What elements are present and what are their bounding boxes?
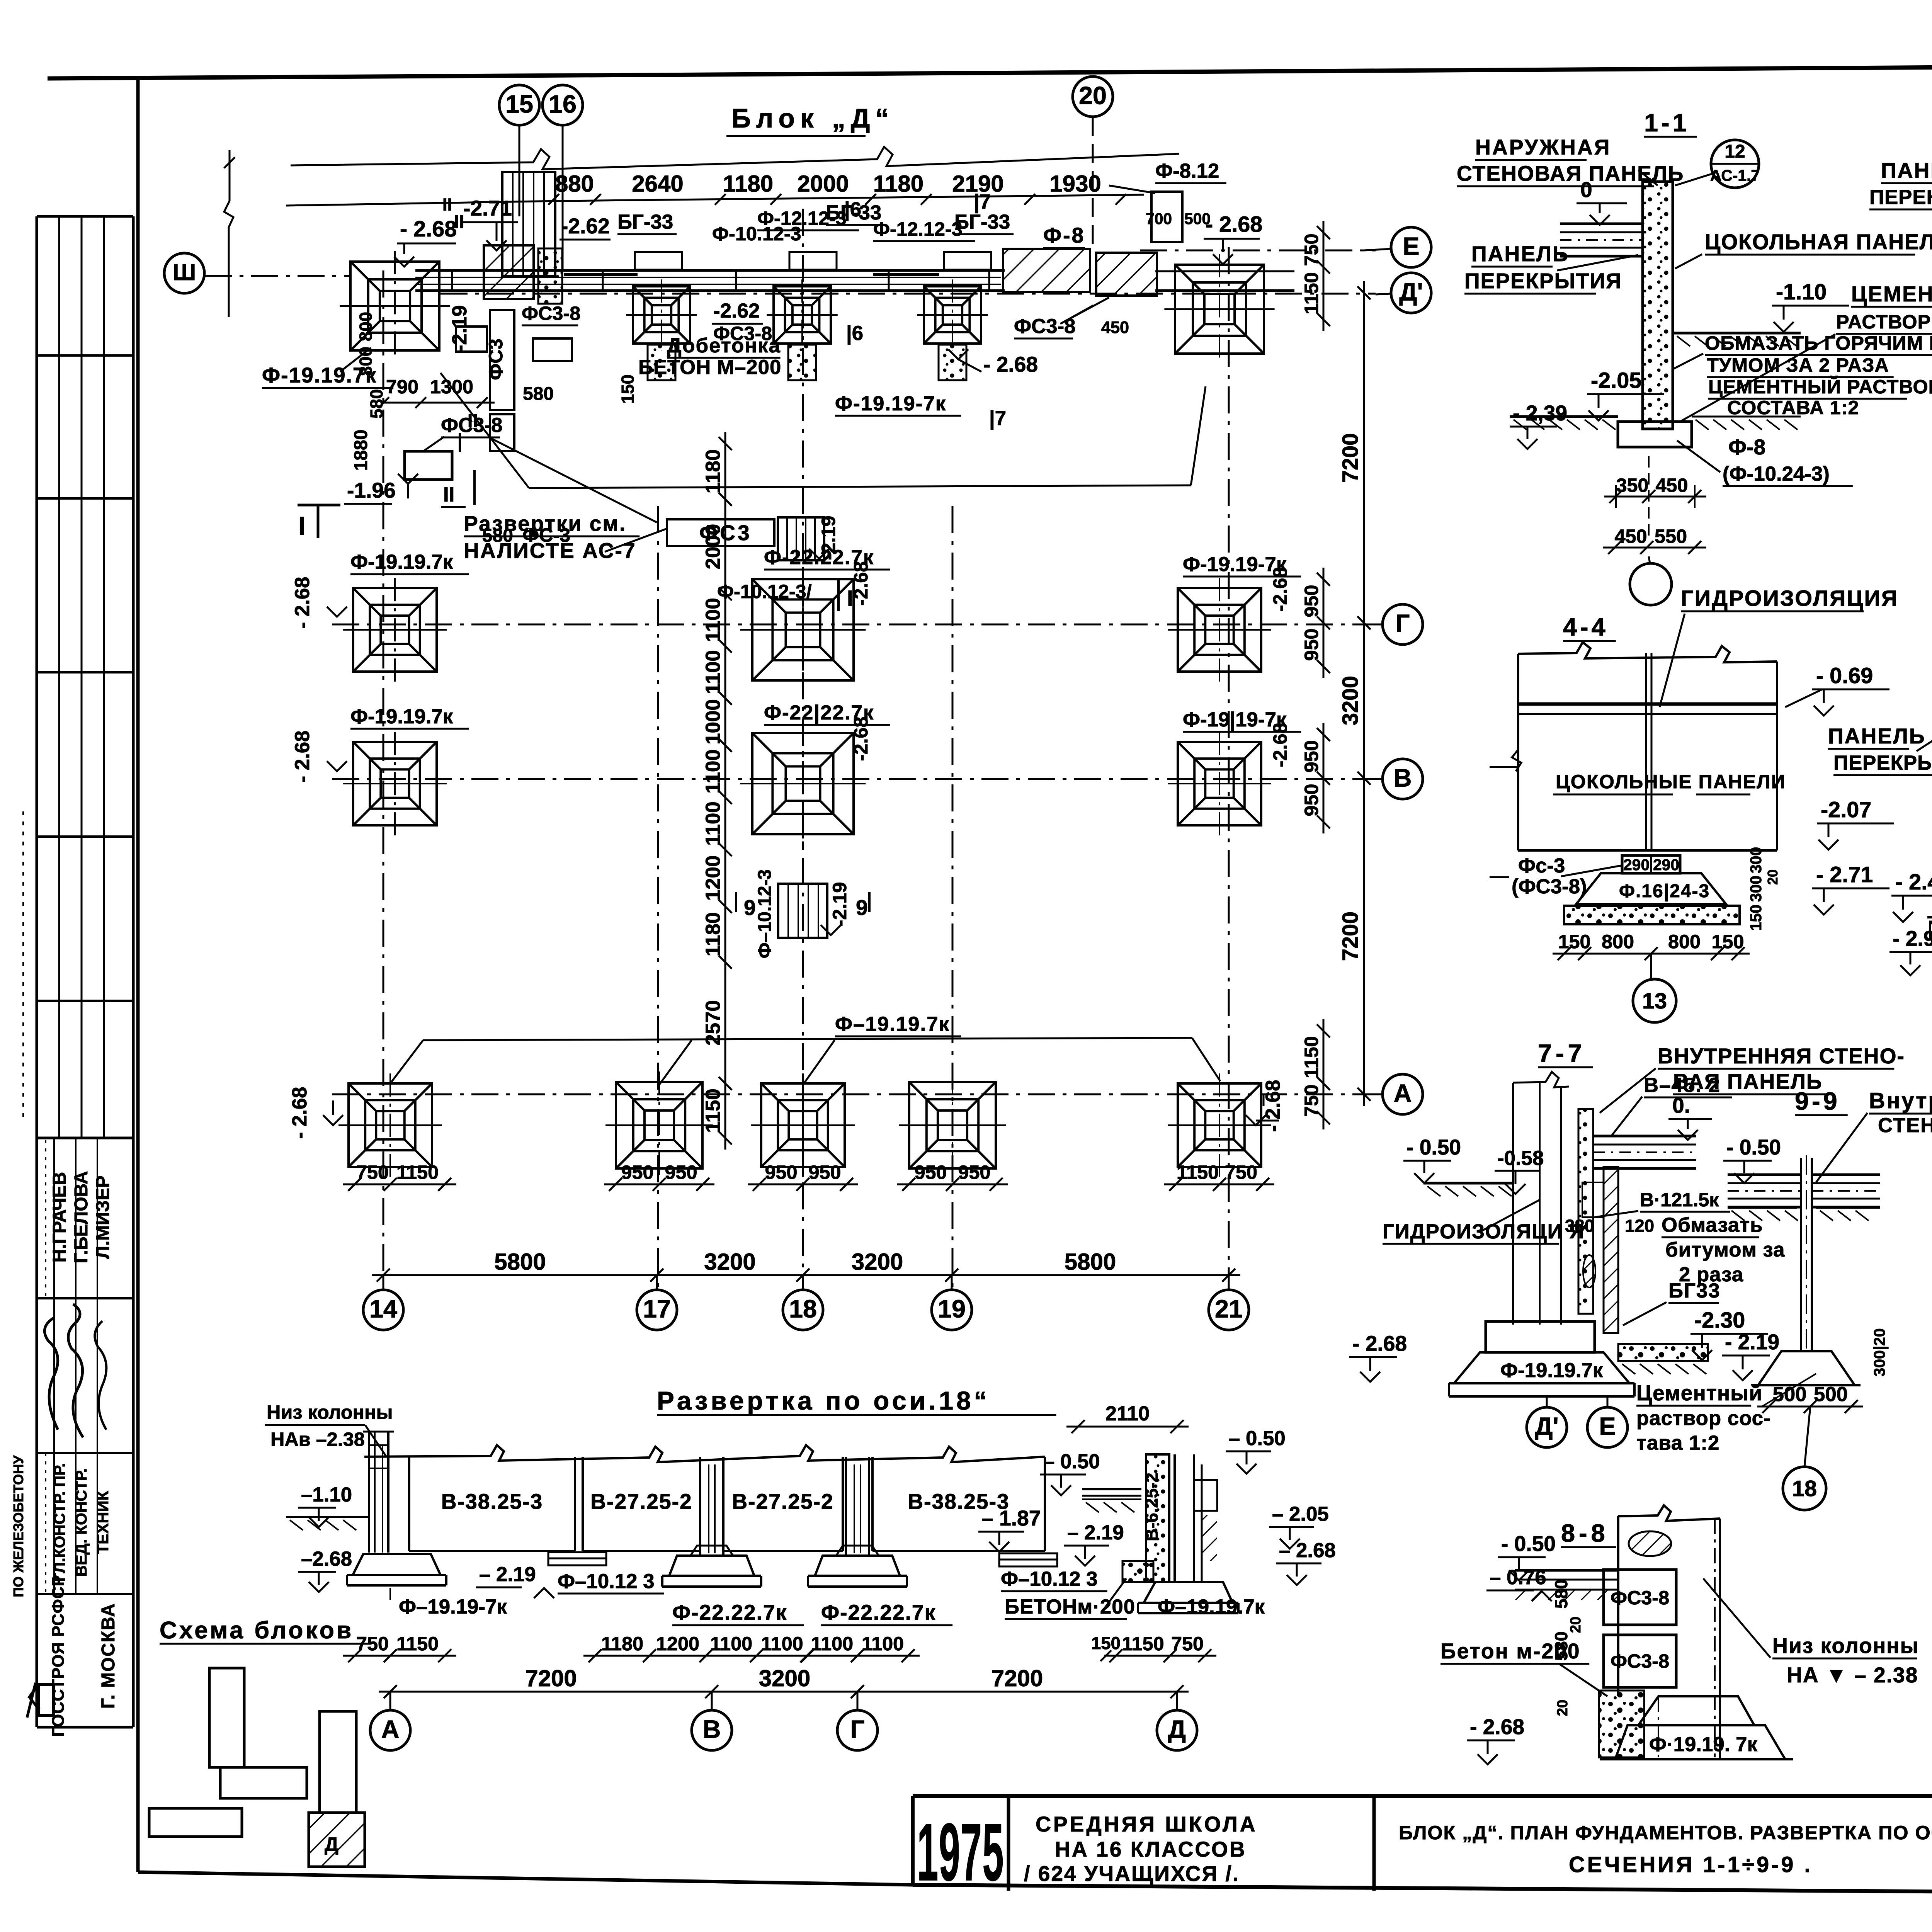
- svg-text:В-27.25-2: В-27.25-2: [732, 1490, 833, 1514]
- svg-text:0: 0: [1580, 178, 1592, 202]
- svg-text:– 0.50: – 0.50: [1043, 1450, 1100, 1473]
- svg-text:Ф-12.12-3: Ф-12.12-3: [873, 218, 963, 240]
- svg-text:Фс-3: Фс-3: [1518, 854, 1565, 877]
- svg-text:В-6.25-2: В-6.25-2: [1142, 1473, 1162, 1541]
- svg-text:1880: 1880: [351, 430, 371, 471]
- svg-text:Обмазать: Обмазать: [1662, 1214, 1763, 1236]
- svg-text:СТЕНОВАЯ ПАНЕЛЬ: СТЕНОВАЯ ПАНЕЛЬ: [1878, 1114, 1932, 1137]
- svg-text:5800: 5800: [1065, 1249, 1116, 1275]
- svg-text:150: 150: [1558, 930, 1590, 952]
- svg-text:СОСТАВА 1:2: СОСТАВА 1:2: [1727, 396, 1859, 418]
- svg-text:– 2.68: – 2.68: [1279, 1539, 1336, 1562]
- svg-text:2000: 2000: [797, 171, 849, 197]
- svg-text:5800: 5800: [494, 1249, 546, 1275]
- svg-text:Ф-8: Ф-8: [1043, 223, 1085, 247]
- svg-text:550: 550: [1655, 525, 1687, 547]
- svg-text:ТУМОМ ЗА 2 РАЗА: ТУМОМ ЗА 2 РАЗА: [1707, 354, 1889, 376]
- svg-text:ЦЕМЕНТНЫЙ РАСТВОР: ЦЕМЕНТНЫЙ РАСТВОР: [1708, 376, 1932, 398]
- svg-text:Низ колонны: Низ колонны: [1772, 1634, 1919, 1658]
- svg-text:350: 350: [1616, 474, 1648, 496]
- svg-text:1180: 1180: [702, 449, 724, 494]
- svg-text:НА 16 КЛАССОВ: НА 16 КЛАССОВ: [1055, 1837, 1247, 1861]
- svg-text:- 2.68: - 2.68: [288, 1087, 311, 1139]
- svg-text:ФС3-8: ФС3-8: [1611, 1650, 1669, 1672]
- svg-text:750: 750: [1171, 1633, 1204, 1655]
- svg-text:Г: Г: [850, 1715, 865, 1743]
- svg-text:ЦОКОЛЬНЫЕ ПАНЕЛИ: ЦОКОЛЬНЫЕ ПАНЕЛИ: [1556, 770, 1786, 793]
- svg-text:- 2.19: - 2.19: [1725, 1330, 1779, 1354]
- svg-text:НАв –2.38: НАв –2.38: [270, 1428, 365, 1450]
- svg-text:880: 880: [555, 171, 594, 197]
- svg-text:20: 20: [1567, 1617, 1584, 1633]
- svg-text:ФС3-8: ФС3-8: [522, 302, 580, 324]
- svg-text:13: 13: [1642, 989, 1667, 1014]
- svg-text:II: II: [442, 195, 452, 214]
- svg-text:4-4: 4-4: [1563, 613, 1609, 641]
- svg-text:В–45. 2: В–45. 2: [1644, 1074, 1721, 1097]
- svg-text:ВНУТРЕННЯЯ СТЕНО-: ВНУТРЕННЯЯ СТЕНО-: [1658, 1044, 1905, 1068]
- svg-text:- 2.68: - 2.68: [983, 352, 1038, 376]
- svg-text:– 2.19: – 2.19: [479, 1563, 536, 1586]
- svg-text:1100: 1100: [702, 801, 724, 846]
- svg-text:1100: 1100: [710, 1633, 752, 1655]
- svg-text:19: 19: [938, 1294, 966, 1323]
- svg-text:2640: 2640: [632, 171, 683, 197]
- svg-text:950: 950: [765, 1161, 797, 1183]
- svg-text:раствор сос-: раствор сос-: [1636, 1407, 1771, 1430]
- svg-text:- 2.95: - 2.95: [1893, 927, 1932, 951]
- svg-text:950: 950: [665, 1161, 697, 1183]
- svg-text:ПАНЕЛЬ: ПАНЕЛЬ: [1828, 724, 1926, 748]
- svg-text:150: 150: [1747, 905, 1765, 931]
- svg-text:1180: 1180: [601, 1633, 643, 1655]
- svg-text:7-7: 7-7: [1538, 1039, 1586, 1067]
- svg-text:Ф-22.22.7к: Ф-22.22.7к: [672, 1600, 787, 1624]
- svg-text:Схема блоков: Схема блоков: [160, 1617, 354, 1644]
- svg-text:- 0.50: - 0.50: [1406, 1135, 1461, 1159]
- svg-text:17: 17: [643, 1294, 671, 1323]
- svg-text:2110: 2110: [1105, 1402, 1150, 1425]
- svg-text:120: 120: [1625, 1216, 1654, 1236]
- svg-text:– 0.76: – 0.76: [1490, 1566, 1546, 1589]
- svg-text:450: 450: [1614, 525, 1647, 547]
- svg-text:800: 800: [356, 347, 376, 376]
- svg-text:1000: 1000: [702, 699, 724, 744]
- svg-text:450: 450: [1655, 474, 1688, 496]
- svg-text:– 2.05: – 2.05: [1272, 1503, 1329, 1526]
- svg-text:-1.96: -1.96: [347, 478, 396, 502]
- svg-text:1300: 1300: [430, 376, 473, 398]
- svg-text:580: 580: [1551, 1631, 1571, 1661]
- svg-text:Ф–19.19.7к: Ф–19.19.7к: [835, 1013, 950, 1036]
- svg-text:- 2.68: - 2.68: [400, 217, 457, 241]
- svg-text:800: 800: [1602, 930, 1634, 952]
- svg-text:- 2.68: - 2.68: [1206, 212, 1262, 237]
- svg-text:Ф-19.19-7к: Ф-19.19-7к: [835, 392, 946, 415]
- svg-text:Внутренняя: Внутренняя: [1869, 1088, 1932, 1113]
- svg-text:(Ф-10.24-3): (Ф-10.24-3): [1723, 463, 1830, 485]
- svg-text:АС-1.7: АС-1.7: [1710, 167, 1760, 184]
- svg-text:-2.68: -2.68: [1269, 567, 1291, 612]
- svg-text:1150: 1150: [1300, 272, 1322, 314]
- svg-text:НАРУЖНАЯ: НАРУЖНАЯ: [1475, 135, 1611, 159]
- svg-text:-2.07: -2.07: [1821, 798, 1871, 822]
- svg-text:/ 624 УЧАЩИХСЯ /.: / 624 УЧАЩИХСЯ /.: [1024, 1862, 1240, 1886]
- svg-text:ПЕРЕКРЫТИЯ: ПЕРЕКРЫТИЯ: [1833, 752, 1932, 774]
- svg-text:950: 950: [914, 1161, 947, 1183]
- svg-text:15: 15: [505, 90, 533, 118]
- svg-text:3200: 3200: [852, 1249, 903, 1275]
- svg-text:950: 950: [1300, 740, 1322, 772]
- svg-text:450: 450: [1101, 318, 1129, 337]
- svg-text:790: 790: [386, 376, 418, 398]
- svg-text:Низ колонны: Низ колонны: [267, 1401, 393, 1423]
- svg-text:|7: |7: [974, 190, 991, 214]
- svg-text:Блок „Д“: Блок „Д“: [731, 103, 894, 133]
- svg-text:ФС3-8: ФС3-8: [1611, 1587, 1669, 1609]
- svg-text:Ф-19.19.7к: Ф-19.19.7к: [1500, 1359, 1603, 1382]
- svg-text:ФС3-8: ФС3-8: [1014, 315, 1076, 338]
- svg-text:2570: 2570: [702, 1000, 724, 1045]
- svg-text:7200: 7200: [1338, 912, 1363, 961]
- svg-text:500: 500: [1814, 1383, 1848, 1406]
- svg-text:–2.68: –2.68: [301, 1548, 352, 1570]
- svg-text:14: 14: [369, 1294, 397, 1323]
- svg-text:1150: 1150: [396, 1633, 439, 1655]
- svg-text:- 2.71: - 2.71: [1816, 862, 1873, 887]
- svg-text:1150: 1150: [1122, 1633, 1164, 1655]
- svg-text:950: 950: [1300, 628, 1322, 661]
- svg-text:|6: |6: [846, 322, 863, 345]
- svg-text:-2.19: -2.19: [448, 305, 471, 352]
- svg-text:580: 580: [367, 389, 386, 418]
- svg-text:ГИДРОИЗОЛЯЦИ Я: ГИДРОИЗОЛЯЦИ Я: [1383, 1220, 1585, 1243]
- svg-text:– 2.19: – 2.19: [1067, 1521, 1124, 1544]
- svg-text:БГ33: БГ33: [1668, 1279, 1721, 1302]
- svg-text:- 2.68: - 2.68: [291, 730, 314, 782]
- svg-text:РАСТВОР СОСТАВА 1:2: РАСТВОР СОСТАВА 1:2: [1836, 311, 1932, 333]
- svg-text:1180: 1180: [723, 171, 773, 197]
- svg-text:ГИДРОИЗОЛЯЦИЯ: ГИДРОИЗОЛЯЦИЯ: [1681, 586, 1898, 611]
- svg-text:800: 800: [356, 312, 376, 341]
- svg-text:16: 16: [549, 90, 577, 118]
- svg-text:Г.БЕЛОВА: Г.БЕЛОВА: [71, 1171, 92, 1263]
- svg-text:950: 950: [958, 1161, 990, 1183]
- svg-text:I: I: [298, 512, 306, 541]
- svg-text:Е: Е: [1599, 1412, 1616, 1440]
- svg-text:Г. МОСКВА: Г. МОСКВА: [98, 1603, 119, 1709]
- svg-text:750: 750: [356, 1161, 389, 1183]
- svg-text:II: II: [443, 483, 454, 506]
- svg-text:Д: Д: [1168, 1715, 1186, 1743]
- svg-text:ГЛ.КОНСТР. ПР.: ГЛ.КОНСТР. ПР.: [51, 1463, 68, 1582]
- svg-text:- 0.69: - 0.69: [1816, 663, 1873, 688]
- svg-text:750: 750: [1300, 1084, 1322, 1117]
- svg-text:ТЕХНИК: ТЕХНИК: [94, 1491, 112, 1554]
- svg-text:Д': Д': [1399, 277, 1423, 306]
- svg-text:Развертка по оси.18“: Развертка по оси.18“: [657, 1386, 990, 1415]
- svg-text:1930: 1930: [1049, 171, 1101, 197]
- svg-text:|6: |6: [844, 198, 861, 221]
- svg-text:-2.71: -2.71: [463, 196, 512, 220]
- svg-text:150: 150: [618, 374, 638, 404]
- svg-text:Ф·19.19. 7к: Ф·19.19. 7к: [1649, 1733, 1757, 1756]
- svg-text:1150: 1150: [396, 1161, 439, 1183]
- svg-text:2000: 2000: [702, 524, 724, 569]
- svg-text:БГ-33: БГ-33: [617, 211, 673, 233]
- svg-text:1100: 1100: [862, 1633, 904, 1655]
- svg-text:380: 380: [1565, 1216, 1594, 1236]
- svg-text:750: 750: [1300, 233, 1322, 266]
- svg-text:битумом за: битумом за: [1665, 1238, 1785, 1261]
- svg-text:- 2,39: - 2,39: [1513, 401, 1567, 425]
- svg-text:1100: 1100: [761, 1633, 803, 1655]
- svg-text:1180: 1180: [873, 171, 923, 197]
- svg-text:18: 18: [789, 1294, 817, 1323]
- svg-text:ЦОКОЛЬНАЯ ПАНЕЛЬ: ЦОКОЛЬНАЯ ПАНЕЛЬ: [1705, 230, 1932, 254]
- svg-text:Ш: Ш: [173, 259, 196, 285]
- svg-text:В-38.25-3: В-38.25-3: [441, 1490, 543, 1514]
- svg-text:300: 300: [1747, 876, 1765, 902]
- svg-text:Ф-19.19.7к: Ф-19.19.7к: [350, 551, 453, 573]
- svg-text:ОБМАЗАТЬ ГОРЯЧИМ БИ-: ОБМАЗАТЬ ГОРЯЧИМ БИ-: [1705, 332, 1932, 354]
- svg-text:-2.19: -2.19: [828, 882, 850, 927]
- svg-text:Д': Д': [1535, 1412, 1559, 1440]
- svg-text:- 0.50: - 0.50: [1726, 1135, 1781, 1159]
- svg-text:Н.ГРАЧЕВ: Н.ГРАЧЕВ: [49, 1172, 70, 1262]
- svg-text:3200: 3200: [704, 1249, 755, 1275]
- svg-text:950: 950: [808, 1161, 841, 1183]
- svg-text:1100: 1100: [702, 650, 724, 694]
- svg-text:8-8: 8-8: [1561, 1519, 1609, 1547]
- svg-text:- 2.68: - 2.68: [1262, 1080, 1284, 1132]
- svg-text:В-27.25-2: В-27.25-2: [590, 1490, 692, 1514]
- svg-text:БГ-33: БГ-33: [954, 211, 1010, 233]
- svg-text:150: 150: [1711, 930, 1744, 952]
- svg-text:290: 290: [1653, 856, 1679, 874]
- svg-text:ВЕД. КОНСТР.: ВЕД. КОНСТР.: [72, 1468, 90, 1577]
- svg-text:Ф–10.12 3: Ф–10.12 3: [558, 1570, 655, 1593]
- svg-text:1100: 1100: [811, 1633, 853, 1655]
- svg-text:9: 9: [744, 896, 756, 920]
- svg-text:В·121.5к: В·121.5к: [1640, 1189, 1719, 1211]
- svg-text:ПАНЕЛЬ: ПАНЕЛЬ: [1881, 158, 1932, 182]
- svg-text:Ф.16|24-3: Ф.16|24-3: [1619, 881, 1710, 901]
- svg-text:1975: 1975: [917, 1806, 1004, 1898]
- svg-text:А: А: [1394, 1079, 1412, 1107]
- svg-text:ПЕРЕКРЫТИЯ: ПЕРЕКРЫТИЯ: [1464, 269, 1622, 293]
- svg-text:ПО ЖЕЛЕЗОБЕТОНУ: ПО ЖЕЛЕЗОБЕТОНУ: [10, 1455, 26, 1597]
- svg-text:1150: 1150: [1177, 1161, 1219, 1183]
- svg-text:Д: Д: [325, 1833, 338, 1855]
- svg-text:300|20: 300|20: [1871, 1328, 1888, 1377]
- svg-text:- 0.50: - 0.50: [1501, 1532, 1556, 1556]
- svg-text:- 2.68: - 2.68: [291, 577, 314, 629]
- svg-text:-2.68: -2.68: [850, 717, 872, 761]
- svg-text:Е: Е: [1403, 232, 1419, 260]
- svg-text:Г: Г: [1396, 609, 1410, 637]
- svg-text:- 2.40: - 2.40: [1895, 870, 1932, 895]
- svg-text:7200: 7200: [525, 1665, 577, 1691]
- svg-text:Ф–19.19-7к: Ф–19.19-7к: [399, 1595, 507, 1618]
- svg-text:20: 20: [1554, 1700, 1571, 1716]
- svg-text:580: 580: [523, 384, 554, 404]
- svg-text:1200: 1200: [702, 855, 724, 901]
- svg-text:ПАНЕЛЬ: ПАНЕЛЬ: [1471, 242, 1569, 266]
- svg-text:-0.58: -0.58: [1497, 1147, 1544, 1170]
- svg-text:1200: 1200: [656, 1633, 699, 1655]
- svg-text:Ф–10.12-3: Ф–10.12-3: [755, 869, 775, 958]
- svg-text:СЕЧЕНИЯ 1-1÷9-9 .: СЕЧЕНИЯ 1-1÷9-9 .: [1569, 1852, 1813, 1877]
- svg-text:1100: 1100: [702, 598, 724, 642]
- svg-text:– 0.50: – 0.50: [1229, 1427, 1286, 1450]
- svg-text:1-1: 1-1: [1644, 109, 1690, 137]
- svg-text:950: 950: [621, 1161, 653, 1183]
- svg-text:Ф-8: Ф-8: [1728, 435, 1765, 459]
- svg-text:1180: 1180: [702, 912, 724, 957]
- svg-text:950: 950: [1300, 784, 1322, 816]
- svg-text:Добетонка: Добетонка: [667, 334, 781, 357]
- svg-text:БЕТОНм·200: БЕТОНм·200: [1005, 1595, 1135, 1618]
- svg-text:950: 950: [1300, 585, 1322, 617]
- svg-text:Ф–19.19.7к: Ф–19.19.7к: [1158, 1595, 1265, 1618]
- svg-text:7200: 7200: [992, 1665, 1043, 1691]
- svg-text:БЕТОН М–200: БЕТОН М–200: [638, 356, 781, 379]
- svg-text:9-9: 9-9: [1795, 1087, 1840, 1115]
- svg-text:-2.68: -2.68: [850, 561, 872, 606]
- svg-text:Л.МИЗЕР: Л.МИЗЕР: [93, 1175, 113, 1259]
- svg-text:300: 300: [1747, 847, 1765, 873]
- svg-text:150: 150: [1091, 1633, 1121, 1653]
- svg-text:-2.68: -2.68: [1269, 723, 1291, 767]
- svg-text:|7: |7: [989, 407, 1006, 430]
- svg-text:800: 800: [1668, 930, 1701, 952]
- svg-text:-1.10: -1.10: [1776, 280, 1827, 304]
- svg-text:12: 12: [1725, 141, 1745, 162]
- svg-text:Развертки см.: Развертки см.: [464, 512, 627, 536]
- svg-text:тава 1:2: тава 1:2: [1636, 1432, 1719, 1454]
- svg-text:3200: 3200: [1338, 676, 1363, 725]
- svg-text:А: А: [381, 1715, 400, 1743]
- svg-text:18: 18: [1792, 1476, 1817, 1501]
- svg-text:Цементный: Цементный: [1636, 1381, 1762, 1405]
- svg-text:-2.62: -2.62: [561, 214, 610, 238]
- svg-text:II: II: [468, 411, 478, 431]
- svg-text:- 2.68: - 2.68: [1470, 1715, 1524, 1739]
- svg-text:СРЕДНЯЯ ШКОЛА: СРЕДНЯЯ ШКОЛА: [1036, 1812, 1258, 1836]
- svg-text:7200: 7200: [1338, 433, 1363, 483]
- svg-text:Ф-22.22.7к: Ф-22.22.7к: [821, 1600, 936, 1624]
- svg-text:500: 500: [1772, 1383, 1806, 1406]
- svg-text:–1.10: –1.10: [301, 1483, 352, 1506]
- svg-text:1100: 1100: [702, 749, 724, 794]
- svg-text:700: 700: [1146, 210, 1172, 228]
- svg-text:21: 21: [1215, 1294, 1243, 1323]
- svg-text:1150: 1150: [702, 1088, 724, 1133]
- svg-text:-2.30: -2.30: [1694, 1308, 1745, 1333]
- svg-text:-2.62: -2.62: [713, 299, 760, 322]
- svg-text:-2.05: -2.05: [1591, 368, 1641, 393]
- svg-text:НА ▼ – 2.38: НА ▼ – 2.38: [1787, 1663, 1918, 1687]
- svg-text:3200: 3200: [759, 1665, 810, 1691]
- svg-text:Ф-8.12: Ф-8.12: [1155, 160, 1219, 182]
- svg-text:В: В: [1394, 764, 1412, 792]
- svg-text:290: 290: [1623, 856, 1650, 874]
- svg-text:20: 20: [1765, 869, 1781, 885]
- svg-text:Ф–10.12 3: Ф–10.12 3: [1001, 1568, 1098, 1590]
- svg-text:ЦЕМЕНТНЫЙ: ЦЕМЕНТНЫЙ: [1851, 282, 1932, 306]
- svg-text:(ФС3-8): (ФС3-8): [1512, 875, 1587, 898]
- svg-text:В: В: [703, 1715, 721, 1743]
- svg-text:750: 750: [1225, 1161, 1257, 1183]
- svg-text:20: 20: [1079, 81, 1107, 109]
- svg-text:БЛОК „Д“. ПЛАН ФУНДАМЕНТОВ. РА: БЛОК „Д“. ПЛАН ФУНДАМЕНТОВ. РАЗВЕРТКА ПО…: [1399, 1821, 1932, 1844]
- svg-text:ПЕРЕКРЫТИЯ: ПЕРЕКРЫТИЯ: [1869, 186, 1932, 209]
- svg-text:580: 580: [1551, 1579, 1571, 1609]
- svg-text:– 1.87: – 1.87: [981, 1506, 1041, 1530]
- svg-text:9: 9: [856, 896, 868, 920]
- svg-text:1150: 1150: [1300, 1036, 1322, 1078]
- svg-text:- 2.68: - 2.68: [1352, 1332, 1407, 1355]
- svg-text:Ф-19.19.7к: Ф-19.19.7к: [350, 705, 453, 728]
